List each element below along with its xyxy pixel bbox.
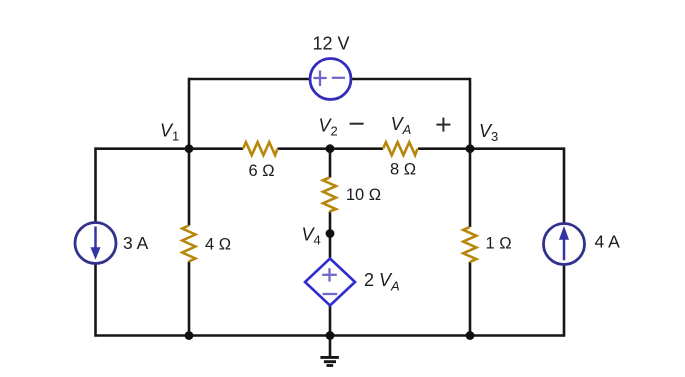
current source 3A arrow bbox=[91, 227, 100, 259]
svg-text:6 Ω: 6 Ω bbox=[248, 162, 274, 180]
wire 6ohm to V2 bbox=[278, 147, 331, 150]
voltage source 12V minus sign bbox=[332, 77, 345, 79]
wire bottom rail bbox=[96, 334, 565, 337]
dependent source minus sign bbox=[323, 293, 338, 295]
wire V1 vertical upper bbox=[188, 78, 191, 226]
dependent source 2VA diamond bbox=[305, 259, 355, 306]
node V1 dot bbox=[185, 144, 194, 153]
wire left branch vertical upper bbox=[94, 147, 97, 222]
bottom rail junction dot right bbox=[466, 331, 475, 340]
svg-text:12 V: 12 V bbox=[312, 34, 349, 54]
dependent source plus sign bbox=[322, 268, 337, 281]
voltage source 12V circle bbox=[310, 59, 351, 100]
svg-text:8 Ω: 8 Ω bbox=[390, 161, 416, 179]
svg-text:3 A: 3 A bbox=[123, 233, 149, 253]
wire top from V1 up-right to V3 through 12V source bbox=[189, 78, 470, 81]
wire 10ohm to diamond top through V4 bbox=[329, 212, 332, 259]
label minus of VA bbox=[350, 123, 364, 125]
wire V3 vertical lower bbox=[469, 262, 472, 336]
svg-text:1 Ω: 1 Ω bbox=[485, 235, 511, 253]
resistor 8 ohm bbox=[383, 142, 418, 155]
bottom rail junction dot center bbox=[326, 331, 335, 340]
wire right branch vertical lower bbox=[563, 265, 566, 337]
svg-text:10 Ω: 10 Ω bbox=[346, 186, 381, 204]
wire V1 to 6ohm bbox=[189, 147, 243, 150]
svg-text:4 A: 4 A bbox=[595, 232, 621, 252]
resistor 10 ohm bbox=[323, 178, 336, 212]
ground bbox=[320, 336, 339, 366]
wire V2 down to 10ohm bbox=[329, 149, 332, 178]
node V3 dot bbox=[466, 144, 475, 153]
wire left branch horizontal to V1 bbox=[96, 147, 190, 150]
wire 8ohm to V3 bbox=[418, 147, 470, 150]
resistor 4 ohm bbox=[182, 226, 195, 262]
bottom rail junction dot left bbox=[185, 331, 194, 340]
voltage source 12V plus sign bbox=[313, 71, 326, 87]
svg-text:4 Ω: 4 Ω bbox=[205, 236, 231, 254]
wire diamond bottom to bottom rail bbox=[329, 306, 332, 336]
resistor 1 ohm bbox=[463, 227, 476, 262]
current source 4A arrow bbox=[560, 227, 569, 260]
wire right branch vertical upper bbox=[563, 147, 566, 223]
current source 4A circle bbox=[544, 224, 585, 265]
node V4 dot bbox=[326, 229, 335, 238]
wire V2 to 8ohm bbox=[330, 147, 383, 150]
node V2 dot bbox=[326, 144, 335, 153]
wire V1 vertical lower bbox=[188, 262, 191, 336]
wire V3 vertical upper bbox=[469, 78, 472, 227]
wire V3 to right branch bbox=[470, 147, 564, 150]
current source 3A circle bbox=[75, 223, 116, 264]
label plus of VA bbox=[436, 118, 450, 132]
wire left branch vertical lower bbox=[94, 264, 97, 337]
resistor 6 ohm bbox=[243, 142, 278, 155]
